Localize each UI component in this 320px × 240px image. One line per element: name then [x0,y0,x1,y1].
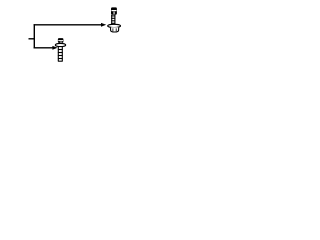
wire bottom branch (to screw B2) [34,47,53,49]
wire stub (left lead-in) [29,38,35,40]
arrowhead pointing at screw B2 [52,46,57,50]
screw B1 washer flange [108,24,121,27]
screw B1 threaded shank [111,15,115,25]
wire vertical (bracket spine) [33,24,35,48]
wire top branch (to screw B1) [34,24,102,26]
screw B1 (upper right) head [111,7,117,14]
screw B2 (lower left) head [58,38,64,43]
screw B2 washer flange [55,43,65,46]
screw B2 threaded shank [58,47,63,62]
screw B1 nut [111,27,119,32]
arrowhead pointing at screw B1 [101,23,106,27]
